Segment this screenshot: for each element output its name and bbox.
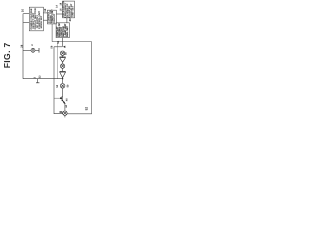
lamp L3 [60,84,65,89]
diode D2 [60,71,66,77]
wire input to U1 [23,13,29,15]
lamp L2 [60,64,64,68]
node junction [62,78,63,79]
wire U1 to U2 upper [43,12,47,14]
wire long bottom horizontal [23,78,63,80]
wire stub below lamp L4 [64,115,66,117]
wire tap rail down [54,47,63,114]
box U2 text [48,9,56,24]
lamp L1 [60,51,64,55]
box U4 text [56,23,69,37]
wire chain [62,68,64,72]
svg-text:52: 52 [84,107,88,111]
wire tap line with arrow [54,46,62,48]
node base dot [60,97,62,99]
box U4 driver block [56,23,69,38]
wire left branch to crystal [23,49,39,51]
ground stub [37,79,39,83]
lamp L4 [63,111,67,115]
wire left rail [22,14,24,79]
svg-text:FIG. 7: FIG. 7 [2,42,12,68]
wire right rail [67,42,91,114]
wire U2 to U3 [56,13,62,15]
svg-text:10: 10 [20,9,24,13]
diode D1 [60,57,66,62]
terminal bar [38,48,40,53]
svg-text:MODE SET: MODE SET [40,15,43,28]
wire chain [62,55,64,57]
svg-text:CIRCUIT: CIRCUIT [53,13,56,23]
wire chain to transistor [62,88,64,97]
svg-text:12: 12 [43,8,47,12]
svg-text:DIAL SET: DIAL SET [66,26,69,37]
wire horizontal bus under U4 [52,41,92,43]
wire U2 bottom lead [51,24,53,42]
box U3 oscillator block [63,1,75,18]
svg-text:20: 20 [68,18,72,22]
arrowhead at tap [63,46,65,48]
wire chain [62,62,64,64]
crystal X1 [31,48,35,52]
wire emitter down [64,103,66,111]
wire U4 bottom lead to chain [62,38,64,47]
wire U1 to U2 lower [43,19,47,21]
wire U1 lower-left branch [23,22,29,24]
wire U3 to U4 [66,18,68,23]
transistor Q1 [62,96,65,104]
base wire [54,97,62,99]
box U2 control block [47,10,56,24]
box U1 rectifier block [29,7,43,31]
label 46 (two-bar mark) [60,110,63,113]
box U3 text [62,1,74,18]
wire mid rail down [56,42,58,79]
emitter arrowhead [63,102,65,104]
box U1 text [30,8,43,29]
svg-text:UNIT SET: UNIT SET [72,5,75,16]
